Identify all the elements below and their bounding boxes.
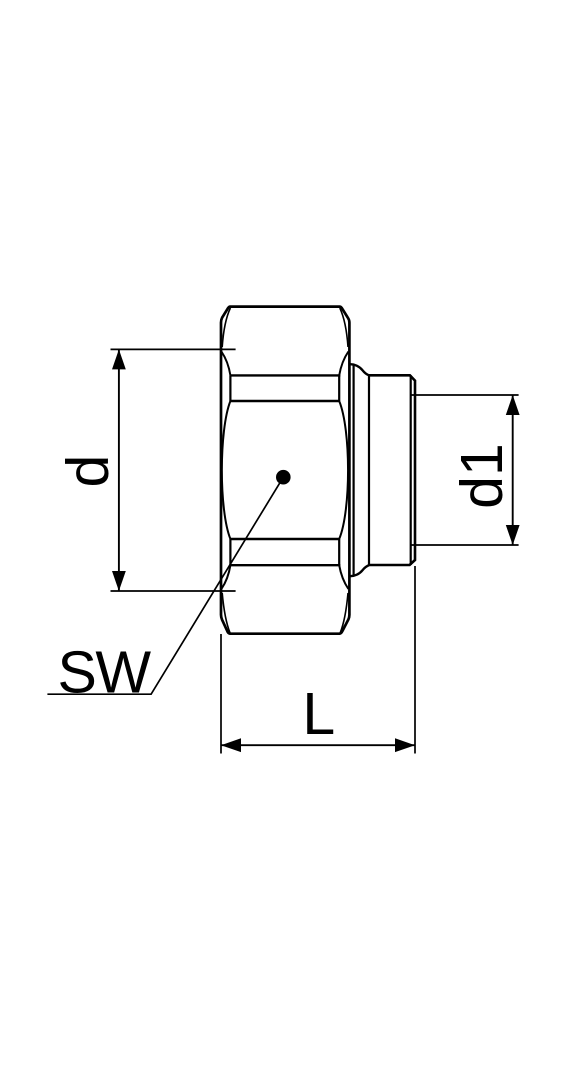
svg-text:L: L xyxy=(302,681,335,747)
svg-text:d: d xyxy=(55,455,121,488)
svg-text:SW: SW xyxy=(57,639,151,705)
svg-text:d1: d1 xyxy=(449,443,515,509)
